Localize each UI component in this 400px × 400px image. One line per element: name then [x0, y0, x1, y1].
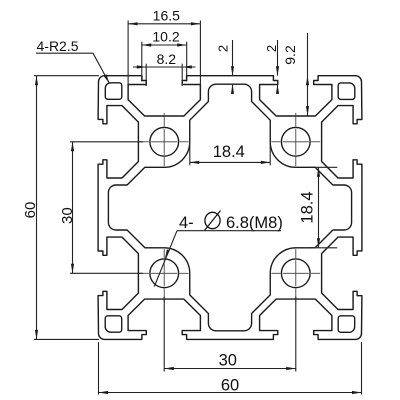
dimension 18.4 horizontal: boss web spacing — [189, 145, 191, 165]
svg-text:6.8(M8): 6.8(M8) — [226, 214, 283, 232]
hole top-right Dia6.8 — [281, 127, 310, 156]
svg-text:4-R2.5: 4-R2.5 — [37, 38, 79, 54]
centerlines bottom-left hole — [151, 272, 177, 274]
svg-text:60: 60 — [22, 202, 39, 219]
hole bottom-right Dia6.8 — [281, 259, 310, 288]
dimensions 2: face wall and lip thickness — [232, 40, 234, 76]
dimension 10.2: slot opening at surface — [142, 44, 187, 46]
dimension 16.5: slot inner width — [128, 23, 200, 25]
central cavity — [108, 84, 351, 331]
svg-text:2: 2 — [264, 45, 279, 52]
svg-text:18.4: 18.4 — [299, 191, 317, 223]
centerlines top-left hole — [151, 141, 177, 143]
dimension 18.4 vertical: boss web spacing — [310, 166, 337, 168]
svg-text:4-: 4- — [179, 214, 194, 232]
profile outer boundary with 8 T-slots — [98, 76, 362, 340]
corner channel TR — [338, 83, 355, 100]
svg-text:30: 30 — [219, 352, 237, 370]
svg-text:2: 2 — [216, 45, 231, 52]
centerlines top-right hole — [283, 141, 309, 143]
corner channel BR — [338, 316, 355, 333]
dimension 60 left: profile height — [34, 75, 99, 77]
svg-text:8.2: 8.2 — [157, 51, 177, 67]
dimension 9.2: slot depth — [307, 33, 309, 116]
dimension 8.2: slot opening — [133, 66, 196, 68]
svg-text:9.2: 9.2 — [282, 45, 298, 65]
svg-text:18.4: 18.4 — [213, 143, 245, 161]
dimension 30 bottom: hole pitch — [163, 297, 165, 372]
corner channel BL — [105, 316, 122, 332]
dimension 30 left: hole pitch — [70, 141, 143, 143]
hole top-left Dia6.8 — [150, 127, 179, 156]
corner channel TL — [105, 83, 122, 100]
hole bottom-left Dia6.8 — [150, 259, 179, 288]
centerlines bottom-right hole — [283, 272, 309, 274]
svg-text:10.2: 10.2 — [152, 29, 179, 45]
svg-text:60: 60 — [221, 376, 239, 394]
svg-text:30: 30 — [59, 207, 76, 224]
dimension 60 bottom: profile width — [98, 342, 100, 395]
svg-text:16.5: 16.5 — [153, 7, 180, 23]
